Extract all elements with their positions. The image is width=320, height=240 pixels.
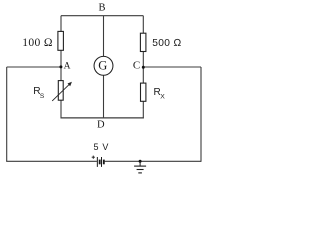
- galvanometer G body: [94, 56, 113, 75]
- resistor Rx body: [141, 83, 146, 101]
- wire Rs bottom to bottom rail: [60, 100, 62, 118]
- wire left rail to battery plus: [6, 160, 97, 162]
- svg-text:D: D: [97, 119, 105, 130]
- wire Rx bottom to bottom rail: [142, 101, 144, 118]
- resistor Rs variable arrow: [52, 82, 72, 101]
- ground junction dot: [139, 160, 142, 163]
- wire left rail vertical: [6, 67, 8, 161]
- wire galvanometer bottom to node D: [103, 75, 105, 118]
- battery plus sign: [92, 156, 95, 159]
- node C junction dot: [142, 66, 145, 69]
- wire node C to Rx top: [142, 67, 144, 83]
- ground symbol: [134, 161, 146, 173]
- wire B to 500ohm top: [142, 16, 144, 34]
- wire 500ohm bottom to node C: [142, 52, 144, 68]
- svg-text:B: B: [98, 3, 105, 14]
- svg-text:RX: RX: [154, 87, 166, 101]
- svg-text:5 V: 5 V: [93, 142, 109, 152]
- resistor Rs body (variable): [58, 81, 63, 101]
- svg-text:RS: RS: [33, 86, 45, 100]
- wire node A to Rs top: [60, 67, 62, 81]
- svg-text:500 Ω: 500 Ω: [152, 38, 181, 49]
- battery 5V cells: [97, 157, 103, 167]
- wire B to galvanometer top: [103, 16, 105, 57]
- node A junction dot: [59, 65, 62, 68]
- wire right rail vertical: [200, 67, 202, 162]
- svg-text:100 Ω: 100 Ω: [22, 36, 53, 49]
- wire B to 100ohm top: [60, 16, 62, 32]
- wire node C to right rail: [143, 66, 201, 68]
- wire bottom rail A side to C side through D: [61, 117, 144, 119]
- wire 100ohm bottom to node A: [60, 50, 62, 67]
- svg-text:C: C: [133, 60, 140, 72]
- wire top B rail: [61, 15, 143, 17]
- wire node A to left rail: [7, 66, 61, 68]
- resistor 100 ohm body: [58, 31, 64, 50]
- resistor 500 ohm body: [140, 33, 146, 51]
- svg-text:A: A: [64, 62, 71, 72]
- wire battery minus to right rail: [105, 160, 201, 162]
- svg-text:G: G: [98, 58, 107, 72]
